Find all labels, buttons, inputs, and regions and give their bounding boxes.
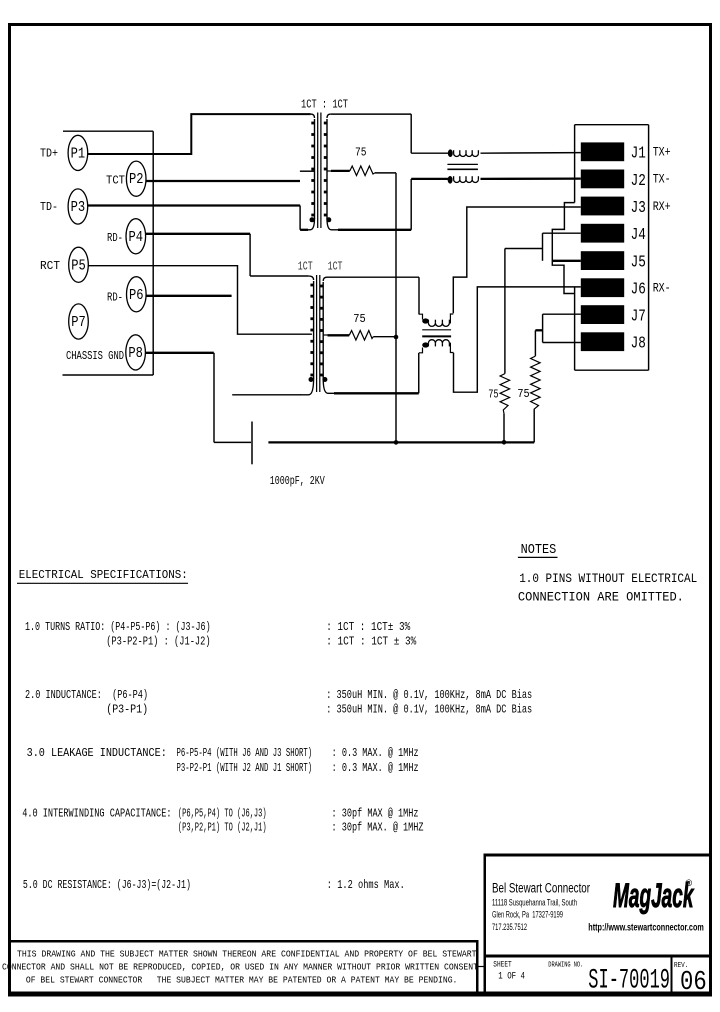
pin P7 [69,304,89,339]
disclaimer box [8,940,479,994]
wire P8 chassis gnd to capacitor [145,353,251,443]
wire choke L2 top right to J3 (RX+) [453,207,581,313]
wire J5 entry [552,260,581,262]
MagJack logo [613,876,695,914]
connector pin J1 contact bar [581,142,624,161]
transformer T2 secondary winding [320,277,336,393]
junction dot capacitor line [394,440,399,445]
svg-text:RCT: RCT [40,259,60,273]
svg-text:CONNECTOR AND SHALL NOT BE REP: CONNECTOR AND SHALL NOT BE REPRODUCED, C… [2,962,478,973]
plug pin block outline [63,131,154,375]
junction dot T2 resistor to vertical [394,335,399,340]
svg-text:TD+: TD+ [40,146,58,160]
svg-text:(P3-P1): (P3-P1) [106,703,148,717]
svg-text:2.0 INDUCTANCE: (P6-P4): 2.0 INDUCTANCE: (P6-P4) [25,688,148,702]
pin P6 [127,277,147,312]
connector pin J5 contact bar [581,251,624,270]
svg-text:J1: J1 [631,144,646,163]
svg-text:1000pF, 2KV: 1000pF, 2KV [270,474,326,488]
pin P1 [68,135,88,170]
choke L1 bottom winding [448,176,479,184]
svg-text:1 OF 4: 1 OF 4 [498,972,525,983]
svg-text:TX-: TX- [653,173,671,187]
svg-text:P3-P2-P1 (WITH J2 AND J1 SHORT: P3-P2-P1 (WITH J2 AND J1 SHORT) [177,761,313,775]
choke L1 top winding [448,149,479,157]
transformer T2 primary winding [300,276,314,395]
transformer T2 core [317,275,320,392]
svg-text:SHEET: SHEET [493,960,512,969]
spec 2.0 inductance [25,688,532,717]
connector pin J6 contact bar [581,278,624,297]
svg-text:1.0 TURNS RATIO: (P4-P5-P6) :: 1.0 TURNS RATIO: (P4-P5-P6) : (J3-J6) [25,620,211,634]
choke L2 bottom winding [419,340,454,353]
spec 3.0 leakage inductance [27,746,419,775]
svg-text:MagJack: MagJack [613,876,695,914]
svg-text:RX-: RX- [653,282,671,296]
svg-text:Bel Stewart Connector: Bel Stewart Connector [492,880,590,896]
wire T2 primary bottom stub [232,394,301,396]
svg-text:TD-: TD- [40,200,58,214]
tick between disclaimer and title block [479,966,484,968]
connector pin J7 contact bar [581,305,624,324]
notes heading [518,543,558,558]
svg-text:06: 06 [680,968,707,998]
svg-text:®: ® [686,878,693,888]
title block frame [484,854,712,994]
svg-text:CONNECTION ARE OMITTED.: CONNECTION ARE OMITTED. [518,590,684,605]
wire J7-J8 short [542,314,544,342]
wire P5 (RCT) to T2 primary center tap [88,266,312,335]
svg-text:75: 75 [355,146,367,160]
svg-text:5.0 DC RESISTANCE: (J6-J3)=(J2: 5.0 DC RESISTANCE: (J6-J3)=(J2-J1) [23,878,191,892]
svg-text:J4: J4 [631,225,646,244]
svg-text:: 350uH MIN. @ 0.1V, 100KHz, 8: : 350uH MIN. @ 0.1V, 100KHz, 8mA DC Bias [326,703,532,717]
svg-text:11118 Susquehanna Trail, South: 11118 Susquehanna Trail, South [492,897,577,907]
junction dot R3 to capacitor line [502,440,507,445]
wire choke L1 to J1 [481,152,581,155]
svg-text:THIS DRAWING AND THE SUBJECT M: THIS DRAWING AND THE SUBJECT MATTER SHOW… [17,949,477,960]
svg-text:TX+: TX+ [653,146,671,160]
svg-text:J5: J5 [631,253,646,272]
connector pin J2 contact bar [581,170,624,189]
svg-text:P1: P1 [71,146,86,163]
wire tap J7/J8 to resistor R4 [535,330,542,356]
choke L2 core [422,330,451,337]
wire choke L2 left leg down [418,353,420,394]
wire choke L1 to J2 [481,177,581,180]
transformer T1 core [318,113,321,229]
wire P4 to T2 primary top [146,234,309,276]
note 1.0 text [518,571,697,605]
spec 5.0 dc resistance [23,878,405,892]
wire T1 secondary top to choke L1 [331,114,448,153]
svg-text:CHASSIS GND: CHASSIS GND [66,349,124,363]
choke L2 top winding [419,314,453,326]
svg-text:: 350uH MIN. @ 0.1V, 100KHz, 8: : 350uH MIN. @ 0.1V, 100KHz, 8mA DC Bias [326,688,532,702]
svg-text:DRAWING NO.: DRAWING NO. [548,961,583,969]
svg-text:J7: J7 [631,307,646,326]
choke L1 core [447,164,478,169]
svg-text:SI-70019: SI-70019 [588,966,670,997]
pin P2 [126,161,146,196]
svg-text:P4: P4 [129,229,144,246]
svg-text:Glen Rock, Pa 17327-9199: Glen Rock, Pa 17327-9199 [492,910,563,920]
resistor 75 (T2 center tap) [328,331,397,341]
svg-text:P2: P2 [129,172,144,189]
svg-text:1.0 PINS WITHOUT ELECTRICAL: 1.0 PINS WITHOUT ELECTRICAL [519,571,697,586]
svg-text:RD-: RD- [107,231,123,245]
wire capacitor to termination network [268,441,534,443]
svg-text:TCT: TCT [106,173,125,187]
resistor R4 75 ohm (J7/J8 termination) [531,356,541,442]
svg-text:RD-: RD- [107,290,123,304]
wire J7 entry [543,313,581,315]
wire P2 (TCT) to T1 primary center tap [146,171,314,181]
wire P1 to T1 primary top [88,114,311,154]
svg-text:75: 75 [488,387,498,401]
svg-text:3.0 LEAKAGE INDUCTANCE:: 3.0 LEAKAGE INDUCTANCE: [27,746,167,760]
svg-text:J2: J2 [631,171,646,190]
wire T1 secondary bottom to choke L1 [338,179,448,230]
svg-text:J8: J8 [631,334,646,353]
wire T2 secondary bottom to choke L2 [334,392,419,394]
svg-text:ELECTRICAL SPECIFICATIONS:: ELECTRICAL SPECIFICATIONS: [19,568,188,582]
svg-text:: 0.3 MAX. @ 1MHz: : 0.3 MAX. @ 1MHz [332,746,419,760]
pin P5 [69,247,89,282]
svg-text:: 1CT : 1CT± 3%: : 1CT : 1CT± 3% [326,620,411,634]
svg-text:(P3,P2,P1) TO (J2,J1): (P3,P2,P1) TO (J2,J1) [178,821,267,835]
wire choke L2 bottom right to J6 (RX-) [454,287,581,392]
svg-text:http://www.stewartconnector.co: http://www.stewartconnector.com [588,922,704,933]
svg-text:75: 75 [353,312,366,326]
disclaimer text [2,949,478,986]
connector pin J3 contact bar [581,197,624,216]
pin P4 [126,219,146,254]
svg-text:OF BEL STEWART CONNECTOR THE: OF BEL STEWART CONNECTOR THE SUBJECT MAT… [26,975,458,986]
svg-text:: 1CT : 1CT ± 3%: : 1CT : 1CT ± 3% [326,635,417,649]
resistor 75 (T1 center tap) [331,166,396,176]
transformer T1 secondary winding [324,114,340,230]
spec 4.0 interwinding capacitance [22,807,423,835]
connector pin J4 contact bar [581,224,624,243]
resistor R3 75 ohm (J4/J5 termination) [500,249,510,442]
wire T2 secondary top to choke L2 [327,277,419,314]
svg-text:P5: P5 [71,258,86,275]
svg-text:(P3-P2-P1) : (J1-J2): (P3-P2-P1) : (J1-J2) [106,635,210,649]
svg-text:717.235.7512: 717.235.7512 [492,922,527,932]
svg-text:P3: P3 [71,199,86,216]
svg-text:4.0 INTERWINDING CAPACITANCE:: 4.0 INTERWINDING CAPACITANCE: [22,807,171,821]
capacitor C1 left plate [251,422,253,465]
wire staircase J5 to frame [552,203,574,294]
svg-text:P6: P6 [129,287,144,304]
svg-text:RX+: RX+ [653,200,671,214]
svg-text:J3: J3 [631,198,646,217]
svg-text:P6-P5-P4 (WITH J6 AND J3 SHORT: P6-P5-P4 (WITH J6 AND J3 SHORT) [177,746,313,760]
svg-text:P8: P8 [128,345,143,362]
wire resistor junction vertical [395,173,397,443]
connector pin J8 contact bar [581,332,624,351]
svg-text:: 30pf MAX @ 1MHz: : 30pf MAX @ 1MHz [332,807,419,821]
wire J8 entry [543,342,581,344]
svg-text:(P6,P5,P4) TO (J6,J3): (P6,P5,P4) TO (J6,J3) [178,807,267,821]
pin P3 [68,189,88,224]
pin P8 [126,335,146,370]
svg-text:75: 75 [517,387,529,401]
svg-text:1CT 1CT: 1CT 1CT [298,260,343,274]
wire tap J4/J5 to resistor R3 [505,248,543,250]
svg-text:1CT : 1CT: 1CT : 1CT [301,97,348,111]
svg-text:: 0.3 MAX. @ 1MHz: : 0.3 MAX. @ 1MHz [332,761,419,775]
spec 1.0 turns ratio [25,620,417,649]
svg-text:: 1.2 ohms Max.: : 1.2 ohms Max. [327,878,405,892]
wire P3 to T1 primary bottom [88,206,308,230]
svg-text:P7: P7 [71,314,86,331]
wire P6 stub [146,295,232,297]
wire J4-J5 short [543,233,581,261]
svg-text:: 30pf MAX. @ 1MHZ: : 30pf MAX. @ 1MHZ [332,821,424,835]
electrical specifications heading [17,568,188,584]
svg-text:J6: J6 [631,280,646,299]
svg-text:NOTES: NOTES [521,543,557,558]
connector block outline [575,125,649,371]
transformer T1 primary winding [301,114,315,230]
